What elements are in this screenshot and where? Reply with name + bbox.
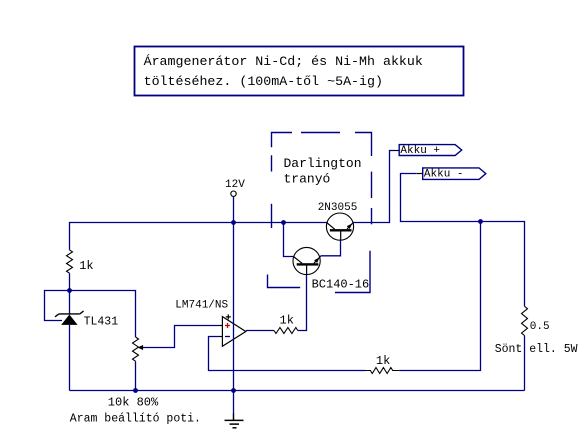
wire op-amp supply vertical [233, 223, 235, 391]
wire feedback right up to Akku- rail [399, 222, 480, 371]
junction dot 12V/rail [231, 220, 236, 225]
junction dot BC140 collector tap [281, 220, 286, 225]
pin stub in+ [218, 325, 222, 327]
wire to ground symbol [233, 391, 235, 414]
wire base drive to BC140 [298, 275, 307, 331]
TL431 U2 [55, 311, 84, 317]
pin stub in- [218, 336, 222, 338]
ground [225, 414, 244, 428]
junction dot gnd/rail [231, 388, 236, 393]
resistor R1 1k (left) [67, 250, 73, 273]
wire collector tap down to BC140 [284, 223, 294, 257]
svg-text:0.5: 0.5 [530, 321, 550, 333]
junction dot pot/rail [133, 388, 138, 393]
svg-text:1k: 1k [79, 259, 93, 273]
dashed box (Darlington enclosure) [268, 133, 372, 293]
svg-text:1k: 1k [280, 314, 294, 328]
svg-text:BC140-16: BC140-16 [312, 278, 370, 292]
pot wiper arrow [142, 326, 218, 348]
potentiometer P1 10k [133, 337, 139, 361]
transistor Q1 BC140-16 [293, 247, 320, 274]
resistor R3 1k (feedback) [366, 368, 400, 374]
wire ref loop left [45, 291, 70, 321]
svg-text:tranyó: tranyó [284, 172, 331, 187]
flag Akku + [399, 145, 462, 156]
wire 1k bottom to TL431 node [69, 273, 71, 314]
junction dot TL431 node [67, 288, 72, 293]
svg-text:Akku -: Akku - [424, 168, 464, 180]
wire Akku- rail [401, 174, 525, 307]
svg-text:LM741/NS: LM741/NS [175, 300, 228, 312]
svg-text:1k: 1k [376, 354, 390, 368]
svg-text:töltéséhez. (100mA-től ~5A-ig): töltéséhez. (100mA-től ~5A-ig) [144, 74, 383, 89]
svg-text:Sönt ell. 5W: Sönt ell. 5W [495, 343, 578, 356]
svg-text:12V: 12V [225, 179, 245, 191]
wire pot bottom [135, 361, 137, 390]
wire node to pot top [70, 291, 136, 338]
svg-text:2N3055: 2N3055 [318, 202, 358, 214]
junction dot feedback/Akku- rail [478, 219, 483, 224]
marker in+ plus red [225, 323, 230, 328]
wire TL431 anode down [69, 325, 71, 391]
flag Akku - [423, 168, 486, 180]
svg-text:Akku +: Akku + [400, 145, 440, 157]
wire top collector rail [70, 223, 328, 250]
wire shunt bottom to rail [524, 336, 526, 391]
wire BC140 emitter to 2N3055 base [321, 240, 341, 256]
svg-text:Darlington: Darlington [284, 156, 362, 171]
wire bottom ground rail [70, 390, 525, 392]
wire 2N3055 emitter to Akku+ [354, 151, 395, 223]
resistor R4 0.5 shunt [522, 306, 528, 335]
title box [135, 47, 464, 96]
wire 12V down to rail [233, 196, 235, 222]
svg-text:Aram beállító poti.: Aram beállító poti. [70, 413, 201, 426]
svg-text:Áramgenerátor Ni-Cd; és Ni-Mh: Áramgenerátor Ni-Cd; és Ni-Mh akkuk [144, 54, 423, 69]
svg-text:10k 80%: 10k 80% [108, 396, 159, 410]
marker V+ plus black [226, 314, 231, 319]
wire in- feedback left [209, 337, 366, 371]
marker in- minus navy [225, 336, 230, 338]
pin stub Akku+ black [395, 150, 400, 152]
svg-text:TL431: TL431 [84, 316, 119, 329]
pin stub Akku- black [417, 173, 423, 175]
resistor R2 1k (base drive) [274, 328, 298, 334]
wire op-amp output [246, 330, 274, 332]
